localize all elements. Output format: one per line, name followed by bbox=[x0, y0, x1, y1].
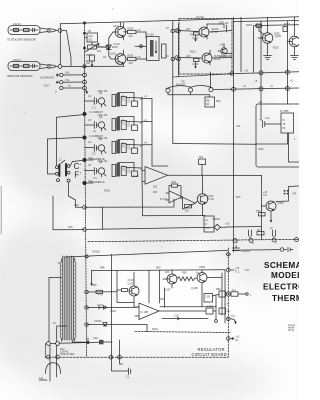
capacitor plus bbox=[259, 118, 265, 128]
wire grid row1 bbox=[173, 74, 231, 77]
svg-text:TC: TC bbox=[127, 148, 130, 151]
svg-text:R: R bbox=[205, 223, 207, 226]
diode bottom bbox=[99, 340, 104, 345]
node bus240 connectors bbox=[233, 239, 237, 243]
svg-text:TC: TC bbox=[127, 125, 130, 128]
resistor Q106 base bbox=[117, 289, 128, 292]
transistor Q202 bbox=[109, 50, 126, 66]
svg-text:10k R1: 10k R1 bbox=[13, 59, 21, 62]
svg-text:R60: R60 bbox=[216, 100, 221, 103]
svg-text:220: 220 bbox=[129, 35, 134, 38]
label specks lower cluster bbox=[92, 267, 230, 331]
svg-text:R95: R95 bbox=[182, 272, 187, 275]
wire bus bottom rows bbox=[87, 291, 118, 293]
svg-text:Q.107: Q.107 bbox=[164, 289, 171, 292]
dashed driver board box bbox=[179, 19, 232, 75]
wire psu left feed bbox=[173, 143, 256, 146]
svg-text:IC 10B: IC 10B bbox=[141, 311, 149, 314]
connector alternate 3 bbox=[60, 86, 83, 89]
wire double vertical bus bbox=[172, 21, 174, 144]
capacitor2 above bus240 bbox=[273, 230, 276, 238]
svg-text:Q.106: Q.106 bbox=[128, 282, 135, 285]
hook arrow below bus connector bbox=[85, 90, 88, 93]
svg-text:281: 281 bbox=[153, 186, 158, 189]
svg-text:220: 220 bbox=[165, 271, 170, 274]
svg-text:LPS: LPS bbox=[68, 226, 73, 229]
transistor Q107 bbox=[163, 270, 177, 288]
svg-text:TL4: TL4 bbox=[232, 289, 237, 292]
outdoor sensor probe bbox=[8, 26, 57, 35]
wire bus row y207 bbox=[85, 199, 175, 207]
dashed bus y357 bbox=[45, 356, 228, 358]
wire ladder rungs bbox=[142, 99, 168, 167]
svg-text:R204: R204 bbox=[86, 54, 92, 57]
resistor above ic102 bbox=[169, 184, 181, 199]
svg-text:R71: R71 bbox=[258, 229, 263, 232]
wire right top join bbox=[234, 21, 300, 22]
transistor Q105 bbox=[262, 186, 300, 222]
svg-text:LED: LED bbox=[74, 204, 79, 207]
svg-text:453: 453 bbox=[153, 191, 158, 194]
svg-text:GND: GND bbox=[221, 56, 227, 59]
svg-text:R90: R90 bbox=[156, 267, 161, 270]
svg-text:R218: R218 bbox=[246, 24, 252, 27]
svg-text:CR91: CR91 bbox=[199, 266, 206, 269]
node bus 207 bbox=[83, 206, 87, 210]
svg-text:TL2: TL2 bbox=[235, 270, 240, 273]
indoor sensor probe bbox=[8, 62, 57, 71]
svg-text:D: D bbox=[55, 90, 57, 93]
box IC QM bbox=[147, 37, 160, 61]
adjust block box bbox=[87, 33, 98, 42]
svg-text:47-30: 47-30 bbox=[208, 198, 215, 201]
wire plug leads bbox=[50, 345, 57, 381]
box on output bbox=[206, 308, 213, 314]
svg-text:ALTERNATE: ALTERNATE bbox=[40, 76, 54, 79]
node box corner bbox=[230, 72, 234, 76]
component C10a bbox=[219, 291, 226, 297]
wire q106 left vertical bbox=[117, 270, 134, 302]
svg-text:TC: TC bbox=[127, 171, 130, 174]
wire sensor verticals bbox=[60, 24, 71, 67]
op-amp IC102a bbox=[166, 191, 182, 203]
svg-text:4.7k: 4.7k bbox=[98, 294, 103, 297]
label specks mid blocks bbox=[88, 92, 147, 180]
svg-text:+15V: +15V bbox=[219, 44, 225, 47]
component marks on rows bbox=[96, 290, 103, 293]
right column comp CR102 cap bbox=[233, 246, 240, 251]
node bus 114 bbox=[83, 112, 86, 115]
dust specks bbox=[23, 8, 162, 341]
svg-text:+5: +5 bbox=[290, 80, 293, 83]
wire grid row2 bbox=[213, 88, 299, 90]
svg-text:+12: +12 bbox=[258, 101, 263, 104]
diamond node bbox=[105, 45, 109, 49]
wire q201 emitter row bbox=[135, 45, 147, 47]
component aux box bbox=[162, 44, 167, 58]
svg-text:DIFFERENCE: DIFFERENCE bbox=[89, 181, 105, 184]
wire lower return bbox=[162, 317, 208, 320]
transistor Q1 right bbox=[258, 17, 273, 55]
wire left bus vertical lower bbox=[85, 114, 87, 357]
capacitor line end bbox=[129, 368, 131, 375]
svg-text:1.8k: 1.8k bbox=[65, 72, 70, 75]
node box edge connector top bbox=[175, 29, 179, 33]
svg-text:4%: 4% bbox=[88, 30, 92, 33]
transformer T1 windings bbox=[60, 262, 61, 338]
svg-text:All rig: All rig bbox=[288, 329, 295, 332]
plug dome bbox=[46, 363, 61, 374]
wire pot stub bbox=[210, 72, 212, 88]
svg-text:G: G bbox=[236, 242, 238, 245]
wire link rows bbox=[102, 207, 104, 229]
svg-text:F: F bbox=[74, 171, 79, 180]
svg-text:R212: R212 bbox=[190, 34, 196, 37]
box rear adj bbox=[205, 97, 215, 107]
wire loop verticals bbox=[91, 271, 93, 286]
svg-text:TC: TC bbox=[122, 169, 125, 172]
wire y331 dashed bbox=[135, 332, 230, 333]
node bus 229 bbox=[83, 228, 87, 232]
svg-text:C: C bbox=[95, 107, 97, 110]
svg-text:OUTDOOR SENSOR: OUTDOOR SENSOR bbox=[7, 38, 37, 42]
transistor Q203 bbox=[199, 24, 209, 39]
svg-text:C105: C105 bbox=[207, 305, 213, 308]
wire mid row y227 bbox=[86, 227, 214, 229]
transistor small q205 bbox=[218, 44, 232, 54]
svg-text:+15: +15 bbox=[225, 222, 230, 225]
resistor on bus bbox=[257, 232, 264, 235]
svg-text:TC: TC bbox=[122, 146, 125, 149]
right column connector bottom bbox=[227, 337, 234, 341]
node bus y66 bbox=[83, 65, 86, 68]
svg-text:ADJUST: ADJUST bbox=[176, 83, 186, 86]
sense block 1 bbox=[94, 93, 142, 108]
svg-text:1N: 1N bbox=[103, 56, 106, 59]
svg-text:CR2: CR2 bbox=[93, 337, 99, 340]
svg-text:R89: R89 bbox=[92, 284, 97, 287]
svg-text:+V: +V bbox=[140, 98, 143, 101]
op-amp IC102b bbox=[182, 197, 195, 209]
wire left tall bbox=[52, 196, 54, 230]
svg-text:Q.108: Q.108 bbox=[191, 287, 198, 290]
svg-text:TP1: TP1 bbox=[199, 156, 204, 159]
capacitor box C83 bbox=[204, 294, 213, 303]
op-amp IC103 bbox=[135, 303, 206, 320]
wire ladder verticals bbox=[142, 97, 152, 216]
node main bus top bbox=[83, 22, 85, 24]
transistor Q108 bbox=[197, 270, 222, 307]
svg-text:G: G bbox=[252, 242, 254, 245]
svg-text:C: C bbox=[94, 153, 96, 156]
op-amp IC101 bbox=[145, 167, 262, 185]
resistor R near Q105 bbox=[259, 213, 266, 216]
resistor far right vertical bbox=[254, 24, 269, 73]
svg-text:THERMOST: THERMOST bbox=[272, 294, 299, 303]
svg-text:TC: TC bbox=[122, 99, 125, 102]
svg-text:R205: R205 bbox=[128, 28, 134, 31]
svg-text:IC QM: IC QM bbox=[147, 34, 154, 37]
svg-text:LINE FILTER: LINE FILTER bbox=[60, 353, 75, 356]
transistor Q106 bbox=[129, 272, 139, 307]
power supply box bbox=[256, 104, 302, 167]
svg-text:220: 220 bbox=[185, 210, 190, 213]
tag marks 45 bbox=[284, 190, 289, 194]
transistor Q103 bbox=[195, 175, 208, 216]
bottom cluster top rail bbox=[92, 269, 226, 272]
wire bus row y229 bbox=[53, 229, 85, 231]
svg-text:C10: C10 bbox=[174, 315, 179, 318]
svg-text:+V: +V bbox=[140, 145, 143, 148]
svg-text:R88: R88 bbox=[100, 267, 105, 270]
node bus 137 bbox=[83, 136, 86, 139]
component R202 bbox=[90, 55, 95, 66]
svg-text:INDOOR SENSOR: INDOOR SENSOR bbox=[7, 74, 33, 78]
schematic title text bbox=[263, 261, 320, 303]
wire bottom verticals bbox=[112, 357, 129, 371]
sense block 3 bbox=[94, 140, 142, 155]
wire output right bbox=[213, 295, 216, 320]
node connector pair y59 bbox=[171, 57, 175, 61]
node box edge connector bottom bbox=[175, 56, 179, 60]
box R 4.7k bbox=[204, 216, 214, 232]
wire q1 collector rail bbox=[268, 24, 299, 27]
wire loop left bbox=[76, 206, 83, 207]
transistor Q2 right edge bbox=[287, 17, 300, 55]
svg-text:+V: +V bbox=[140, 122, 143, 125]
wire rows right of bus bbox=[86, 160, 93, 183]
svg-text:CR104: CR104 bbox=[94, 320, 102, 323]
wire left bus vertical bbox=[84, 23, 86, 114]
LED CR106 bbox=[214, 224, 226, 230]
node grid row1 bbox=[259, 71, 263, 75]
svg-text:R75: R75 bbox=[236, 196, 241, 199]
connector alternate 2 bbox=[56, 81, 82, 84]
right column connector 4 hook bbox=[227, 317, 237, 324]
wire q201 base join bbox=[97, 32, 113, 47]
wire outdoor sensor to node bbox=[57, 30, 58, 32]
right column connector 3 bbox=[226, 292, 248, 296]
right column connector 2 bbox=[227, 268, 235, 272]
svg-text:Q201: Q201 bbox=[113, 25, 120, 28]
svg-text:R99: R99 bbox=[216, 288, 221, 291]
svg-text:R102: R102 bbox=[152, 328, 158, 331]
svg-text:CIRCUIT BOARD: CIRCUIT BOARD bbox=[192, 352, 227, 357]
svg-text:x: x bbox=[250, 294, 252, 297]
svg-text:TC: TC bbox=[127, 101, 130, 104]
svg-text:R203: R203 bbox=[112, 46, 118, 49]
wire right column x222 bbox=[221, 273, 223, 315]
diode CR201 bbox=[106, 38, 111, 56]
dashed board boundary vertical bbox=[227, 248, 229, 357]
wire ic101 feeds bbox=[142, 171, 145, 182]
left page-edge scan streak bbox=[0, 186, 2, 234]
svg-text:IC 7805: IC 7805 bbox=[280, 110, 289, 113]
svg-text:+V: +V bbox=[144, 119, 147, 122]
node test point bbox=[215, 320, 218, 323]
sense block 4 bbox=[94, 163, 142, 178]
connector alternate 1 bbox=[56, 73, 82, 76]
svg-text:C12: C12 bbox=[265, 117, 270, 120]
svg-text:1.5k: 1.5k bbox=[65, 79, 70, 82]
node outdoor connector bbox=[58, 29, 62, 33]
svg-text:R214: R214 bbox=[193, 63, 199, 66]
sense block 2 bbox=[94, 117, 142, 132]
ground symbol Q1 emitter bbox=[264, 56, 272, 60]
resistor R206 bbox=[126, 57, 147, 60]
resistor R214 bbox=[194, 59, 200, 69]
transistor Q204 bbox=[179, 50, 212, 65]
node indoor connector bbox=[58, 65, 62, 69]
svg-text:+V: +V bbox=[205, 219, 208, 222]
wire mid row y307 right bbox=[160, 306, 216, 308]
regulator IC box bbox=[281, 113, 294, 133]
transformer T1 winding stubs bbox=[49, 278, 88, 343]
variable resistor VR201 bbox=[86, 44, 100, 52]
wire row y252 bbox=[64, 250, 280, 257]
svg-text:24V: 24V bbox=[225, 22, 230, 25]
bottom left connector rows bbox=[47, 342, 51, 346]
wire q204 out bbox=[212, 57, 232, 60]
svg-text:VR: VR bbox=[96, 45, 100, 48]
wire q105 vertical bbox=[261, 175, 263, 239]
node bus connector circles bbox=[83, 73, 87, 77]
svg-text:+CR102: +CR102 bbox=[241, 250, 251, 253]
capacitor end mark bbox=[284, 247, 293, 251]
svg-text:C103: C103 bbox=[110, 310, 116, 313]
svg-text:CR105: CR105 bbox=[92, 251, 100, 254]
capacitor above bus240 bbox=[249, 230, 252, 239]
svg-text:R221: R221 bbox=[284, 23, 290, 26]
svg-text:10k R2: 10k R2 bbox=[13, 23, 21, 26]
svg-text:C102: C102 bbox=[97, 304, 103, 307]
wire feedback verticals bbox=[160, 270, 165, 307]
svg-text:220: 220 bbox=[129, 62, 134, 65]
svg-text:R64: R64 bbox=[172, 181, 177, 184]
wire psu internals bbox=[256, 104, 288, 144]
resistor small right edge bbox=[283, 27, 287, 32]
wire mid row y215 bbox=[143, 214, 206, 216]
svg-text:MODEL 1: MODEL 1 bbox=[271, 271, 299, 280]
node bus 160 bbox=[83, 158, 86, 161]
svg-text:R213: R213 bbox=[190, 51, 196, 54]
wire x225 vertical bbox=[224, 270, 226, 323]
test point box bbox=[199, 159, 206, 165]
svg-text:IC: IC bbox=[283, 119, 286, 122]
svg-text:Q202: Q202 bbox=[110, 53, 117, 56]
potentiometer TB adjust bbox=[166, 86, 213, 97]
svg-text:C11: C11 bbox=[236, 125, 241, 128]
svg-text:C83: C83 bbox=[206, 295, 211, 298]
wire indoor sensor to bus bbox=[57, 65, 124, 67]
svg-text:G: G bbox=[275, 242, 277, 245]
transformer T1 bbox=[63, 256, 74, 340]
node connector pair y31 bbox=[171, 29, 175, 33]
node row252 connector bbox=[280, 248, 284, 252]
wire switch feeds bbox=[48, 139, 56, 174]
svg-text:R150: R150 bbox=[104, 190, 110, 193]
svg-text:VOLT: VOLT bbox=[44, 84, 51, 87]
svg-text:16 VAC: 16 VAC bbox=[196, 16, 204, 19]
wire cf row2 bbox=[48, 137, 85, 139]
svg-text:R76: R76 bbox=[256, 210, 261, 213]
svg-text:R206: R206 bbox=[128, 55, 134, 58]
label specks psu bbox=[236, 85, 296, 245]
svg-text:24V: 24V bbox=[186, 28, 191, 31]
wire cluster left vertical bbox=[148, 270, 150, 303]
label specks upper cluster bbox=[86, 16, 290, 65]
resistor R205 bbox=[124, 30, 147, 38]
svg-text:Q105: Q105 bbox=[278, 202, 285, 205]
svg-text:CR106: CR106 bbox=[213, 218, 221, 221]
wire row 227 right bbox=[226, 226, 262, 229]
wire to Q203 bbox=[179, 31, 199, 32]
svg-text:C/R: C/R bbox=[292, 193, 296, 196]
svg-text:201: 201 bbox=[88, 39, 93, 42]
wire bus stubs to blocks bbox=[85, 101, 95, 171]
switch S2 C/F selector bbox=[56, 160, 71, 182]
node diamond on dashed bus bbox=[226, 252, 230, 256]
wire q203 out bbox=[207, 24, 232, 32]
svg-text:SCHEMATIC: SCHEMATIC bbox=[264, 261, 299, 270]
svg-text:ELECTRONIC: ELECTRONIC bbox=[263, 283, 299, 292]
svg-text:R212: R212 bbox=[193, 37, 199, 40]
svg-text:453: 453 bbox=[160, 298, 165, 301]
svg-text:(A): (A) bbox=[235, 339, 238, 342]
svg-text:GND: GND bbox=[258, 148, 264, 151]
node grid row2 bbox=[232, 87, 236, 91]
dashed left link bbox=[45, 344, 47, 358]
top bus wire bbox=[60, 17, 299, 24]
svg-text:TC: TC bbox=[122, 123, 125, 126]
svg-text:120: 120 bbox=[39, 377, 44, 380]
transistor Q201 bbox=[113, 22, 126, 40]
svg-text:AD: AD bbox=[206, 103, 210, 106]
svg-text:R220: R220 bbox=[273, 47, 279, 50]
component C10b bbox=[219, 308, 226, 314]
resistor R212 bbox=[194, 32, 200, 41]
svg-text:+15: +15 bbox=[244, 70, 249, 73]
fine print bbox=[288, 324, 296, 332]
svg-text:201: 201 bbox=[97, 50, 102, 53]
wire cf row1 bbox=[57, 115, 85, 118]
svg-text:+V: +V bbox=[144, 142, 147, 145]
resistor R ic102 bbox=[185, 205, 192, 208]
wire adjust connections bbox=[85, 38, 106, 48]
dashed bus y240 bbox=[88, 239, 299, 241]
svg-text:+V: +V bbox=[140, 168, 143, 171]
svg-text:Q205: Q205 bbox=[275, 35, 282, 38]
svg-text:+V: +V bbox=[144, 95, 147, 98]
svg-text:TL1: TL1 bbox=[231, 315, 236, 318]
wire right verticals bbox=[233, 18, 235, 253]
svg-text:IC 102: IC 102 bbox=[160, 198, 168, 201]
ground symbol Q2 bbox=[291, 56, 299, 60]
node bus diamond bbox=[85, 255, 89, 259]
node bus 183 bbox=[83, 181, 86, 184]
resistor between Q107 Q108 bbox=[177, 277, 197, 281]
